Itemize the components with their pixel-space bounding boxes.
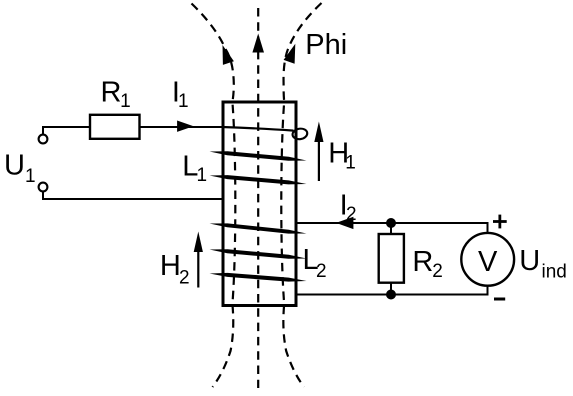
svg-text:U: U (4, 150, 25, 182)
label I1 (172, 77, 189, 113)
flux arrow right (284, 44, 296, 64)
svg-text:2: 2 (316, 261, 327, 282)
flux arrow left (223, 45, 234, 65)
wire R1 to core (I1 wire) (140, 126, 223, 128)
voltmeter U1 meter (V) (461, 233, 514, 286)
label I2 (340, 190, 357, 226)
arrow H2 (field strength, up) (194, 232, 203, 288)
resistor R2 (379, 223, 404, 295)
plus terminal mark (493, 215, 507, 229)
label H1 (328, 138, 356, 174)
label R2 (412, 246, 442, 282)
label R1 (101, 77, 131, 112)
arrow I1 (current direction) (177, 121, 194, 132)
svg-text:1: 1 (25, 166, 36, 187)
svg-text:R: R (101, 77, 122, 109)
flux line center (dashed axis line) (257, 8, 259, 388)
label L2 (303, 244, 327, 282)
flux arrow center (252, 34, 264, 53)
flux line right (dashed field line through core, right) (281, 3, 321, 387)
svg-text:1: 1 (120, 91, 131, 112)
wire bottom-right (voltmeter to core) (296, 286, 488, 295)
minus terminal mark (494, 298, 505, 301)
svg-text:ind: ind (542, 261, 567, 282)
svg-text:Phi: Phi (305, 29, 347, 61)
svg-text:1: 1 (197, 165, 208, 186)
arrow I2 (current direction, left) (336, 217, 353, 229)
resistor R1 (90, 115, 140, 139)
coil L1 (primary winding) (210, 127, 309, 184)
label H2 (160, 250, 190, 289)
svg-text:2: 2 (432, 261, 443, 282)
wire I2 (core to voltmeter, top) (296, 223, 488, 233)
wire terminal-top to R1 (43, 127, 90, 134)
label Uind (519, 245, 567, 282)
terminal bottom (U1 lower terminal) (39, 183, 48, 192)
coil L2 (secondary winding) (210, 223, 307, 281)
svg-text:2: 2 (346, 204, 357, 225)
svg-text:R: R (412, 246, 433, 278)
terminal top (U1 upper terminal) (39, 135, 48, 144)
svg-text:H: H (160, 250, 181, 282)
junction top (node) (387, 219, 396, 228)
label L1 (182, 151, 207, 186)
svg-text:1: 1 (345, 152, 356, 173)
svg-text:2: 2 (179, 268, 190, 289)
svg-text:1: 1 (178, 91, 189, 112)
junction bottom (node) (387, 290, 396, 299)
arrow H1 (field strength, up) (314, 122, 323, 182)
wire terminal-bottom to core (L1 return) (43, 192, 222, 199)
svg-text:V: V (478, 246, 498, 278)
svg-text:U: U (519, 245, 540, 277)
flux line left (dashed field line through core, left) (192, 4, 236, 388)
label U1 (4, 150, 36, 187)
core (iron core rectangle) (223, 102, 296, 306)
